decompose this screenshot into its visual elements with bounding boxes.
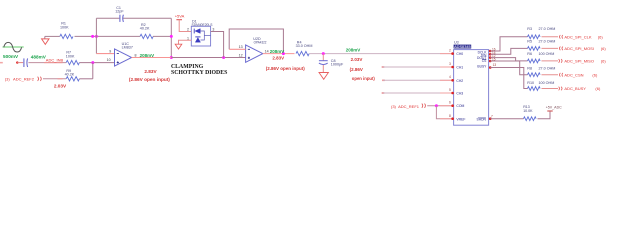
- svg-text:100 OHM: 100 OHM: [539, 81, 555, 85]
- wire REF1 to COM: [427, 105, 453, 107]
- svg-text:8: 8: [135, 54, 137, 58]
- svg-text:(6): (6): [595, 86, 601, 91]
- svg-text:10: 10: [107, 58, 111, 62]
- left pin numbers: [449, 48, 451, 117]
- svg-text:SHDN: SHDN: [477, 118, 487, 122]
- svg-text:27.0 OHM: 27.0 OHM: [539, 27, 556, 31]
- svg-text:SCHOTTKY DIODES: SCHOTTKY DIODES: [171, 70, 227, 76]
- svg-text:ADC_INB: ADC_INB: [46, 58, 64, 63]
- svg-text:CH2: CH2: [456, 79, 463, 83]
- junction dots feedback node: [91, 35, 94, 38]
- svg-text:2.03V: 2.03V: [351, 57, 363, 62]
- wire output riser: [170, 18, 172, 57]
- right pin dots: [489, 50, 492, 120]
- source V1 sine symbol: [3, 42, 24, 52]
- svg-text:9: 9: [109, 49, 111, 53]
- power +5V_ADC: [547, 110, 552, 112]
- resistor R5: [528, 47, 541, 51]
- svg-text:7: 7: [491, 114, 493, 118]
- port ADC_SPI_MISO: [559, 59, 562, 63]
- svg-text:+5VA: +5VA: [175, 13, 185, 18]
- junction dot REF1: [435, 104, 438, 107]
- svg-text:CH3: CH3: [456, 92, 463, 96]
- wire R2 to output riser: [153, 35, 171, 37]
- resistor R10: [528, 87, 541, 91]
- svg-text:4: 4: [449, 75, 451, 79]
- resistor R2: [140, 34, 153, 38]
- svg-text:8: 8: [449, 114, 451, 118]
- wire +5VA to D1 pin2: [179, 20, 191, 32]
- left pin stubs: [440, 54, 454, 119]
- wire R1 to R2: [75, 35, 141, 37]
- svg-text:CH1: CH1: [456, 66, 463, 70]
- wire source to C: [17, 62, 23, 64]
- svg-text:CH0: CH0: [456, 52, 463, 56]
- wire gnd to R1: [45, 35, 60, 37]
- source stub mark: [0, 62, 3, 64]
- wire DCLK to R3: [490, 37, 527, 51]
- svg-text:2: 2: [187, 28, 189, 32]
- capacitor C8: [319, 54, 328, 73]
- wire pin13 stub: [229, 48, 245, 50]
- left pin dots: [451, 52, 454, 120]
- svg-text:ADC_CSN: ADC_CSN: [564, 72, 583, 77]
- svg-text:(2.86V: (2.86V: [350, 67, 363, 72]
- svg-text:CS: CS: [482, 59, 487, 63]
- svg-text:R10: R10: [527, 81, 534, 85]
- svg-text:100K: 100K: [66, 54, 75, 58]
- node dot source: [16, 61, 18, 63]
- svg-text:ADC_BUSY: ADC_BUSY: [564, 86, 586, 91]
- op-amp U2D: [246, 45, 263, 62]
- svg-text:12pF: 12pF: [115, 10, 124, 14]
- wire C to R7 with net segment: [28, 62, 66, 64]
- wire U2D output: [263, 53, 295, 55]
- svg-text:12: 12: [239, 54, 243, 58]
- junction dot C8: [322, 52, 325, 55]
- wire D1 pin3 riser: [211, 32, 224, 58]
- wire U2D feedback: [229, 29, 283, 54]
- svg-text:13: 13: [239, 45, 243, 49]
- right pin names: [477, 51, 488, 122]
- capacitor C2 (input coupling): [24, 58, 28, 67]
- wire CS to R8: [490, 61, 527, 75]
- wire R9 to junction: [79, 78, 92, 80]
- port ADC_CSN: [559, 73, 562, 77]
- svg-text:27.0 OHM: 27.0 OHM: [539, 39, 556, 43]
- svg-text:(2.86V open input): (2.86V open input): [129, 77, 171, 82]
- junction dot output/R2: [170, 35, 173, 38]
- wire R13 to +5V_ADC: [538, 111, 551, 118]
- wire CH2: [382, 80, 385, 82]
- wire C1 top line: [96, 17, 119, 19]
- svg-text:ADC_SPI_MOSI: ADC_SPI_MOSI: [564, 46, 594, 51]
- svg-text:2.83V: 2.83V: [272, 56, 284, 61]
- svg-text:13: 13: [493, 63, 497, 67]
- wire DOUT to R6: [490, 58, 527, 61]
- resistor R8: [528, 73, 541, 77]
- svg-text:14: 14: [265, 50, 269, 54]
- wire CH1: [382, 66, 385, 68]
- resistor R3: [528, 35, 541, 39]
- ground GND2: [175, 44, 182, 49]
- resistor R13: [524, 117, 537, 121]
- wire DIN to R5: [490, 48, 527, 54]
- svg-text:OPA4322: OPA4322: [254, 40, 267, 44]
- svg-text:10.0K: 10.0K: [523, 109, 533, 113]
- wire pin 9 stub: [96, 53, 114, 55]
- port ADC_SPI_MOSI: [559, 47, 562, 51]
- junction dot output elbow: [170, 56, 173, 59]
- svg-text:R3: R3: [527, 27, 532, 31]
- svg-text:33.0 OHM: 33.0 OHM: [296, 44, 313, 48]
- svg-text:3: 3: [449, 62, 451, 66]
- resistor R1: [60, 34, 73, 38]
- svg-text:488mV: 488mV: [31, 54, 47, 59]
- svg-text:R6: R6: [527, 52, 532, 56]
- svg-text:COM: COM: [456, 104, 464, 108]
- svg-text:BUSY: BUSY: [477, 64, 487, 68]
- svg-text:1000pF: 1000pF: [331, 63, 344, 67]
- svg-text:100 OHM: 100 OHM: [539, 52, 555, 56]
- svg-text:ADS8345: ADS8345: [454, 45, 471, 49]
- svg-text:100K: 100K: [60, 25, 69, 29]
- wire BUSY to R10: [490, 68, 527, 89]
- wire U1C output: [132, 57, 172, 59]
- svg-text:(6): (6): [592, 72, 598, 77]
- svg-text:27.0 OHM: 27.0 OHM: [539, 67, 556, 71]
- port ADC_SPI_CLK: [559, 35, 562, 39]
- svg-text:R8: R8: [527, 67, 532, 71]
- wire R7 to opamp: [79, 62, 114, 64]
- svg-text:(6): (6): [601, 46, 607, 51]
- svg-text:VREF: VREF: [456, 118, 465, 122]
- svg-text:open input): open input): [352, 76, 376, 81]
- svg-text:(3) ADC_REF1: (3) ADC_REF1: [391, 104, 420, 109]
- svg-text:(3) ADC_REF2: (3) ADC_REF2: [5, 77, 35, 82]
- svg-text:(6): (6): [598, 34, 604, 39]
- svg-text:6: 6: [449, 101, 451, 105]
- svg-text:40.2K: 40.2K: [65, 73, 75, 77]
- capacitor C1: [120, 15, 124, 22]
- wire REF2 to R9: [43, 78, 66, 80]
- svg-text:2: 2: [449, 48, 451, 52]
- junction node ADC_INB/R9: [91, 61, 94, 64]
- ground GND1: [42, 36, 49, 44]
- svg-text:5: 5: [449, 88, 451, 92]
- wire U1C out to U2D: [171, 57, 245, 59]
- svg-text:(6): (6): [601, 59, 607, 64]
- svg-text:40.2K: 40.2K: [140, 27, 150, 31]
- svg-text:ADC_SPI_CLK: ADC_SPI_CLK: [564, 34, 591, 39]
- wire REF1 to VREF: [436, 106, 453, 119]
- ground GND3: [319, 73, 328, 80]
- wire riser to C1 line and down to pin9: [95, 18, 97, 53]
- svg-text:R5: R5: [527, 39, 532, 43]
- svg-text:208mV: 208mV: [140, 53, 155, 58]
- op-amp U1C: [115, 49, 132, 66]
- port ADC_BUSY: [559, 87, 562, 91]
- junction dot feedback: [282, 52, 285, 55]
- left pin names: [456, 52, 465, 121]
- wire D1 pin1 to gnd: [179, 40, 192, 44]
- svg-text:(2.86V open input): (2.86V open input): [266, 66, 306, 71]
- junction dot clamp: [222, 56, 225, 59]
- wire riser R9: [92, 63, 94, 79]
- svg-text:+5V_ADC: +5V_ADC: [546, 106, 562, 110]
- svg-text:LM837: LM837: [122, 46, 133, 50]
- resistor R6: [528, 59, 541, 63]
- resistor R7: [66, 60, 79, 64]
- wire CH3: [382, 92, 385, 94]
- svg-text:500mV: 500mV: [3, 54, 19, 59]
- svg-text:ADC_SPI_MISO: ADC_SPI_MISO: [564, 59, 594, 64]
- resistor R9: [66, 77, 79, 81]
- svg-text:208mV: 208mV: [270, 49, 285, 54]
- svg-text:2.83V: 2.83V: [144, 69, 157, 74]
- wire R4 to CH0: [309, 53, 453, 55]
- svg-text:2.03V: 2.03V: [54, 83, 67, 88]
- resistor R4: [296, 51, 309, 55]
- svg-text:208mV: 208mV: [346, 48, 361, 53]
- wire SHDN to R13: [490, 118, 523, 120]
- right pin numbers: [491, 48, 496, 119]
